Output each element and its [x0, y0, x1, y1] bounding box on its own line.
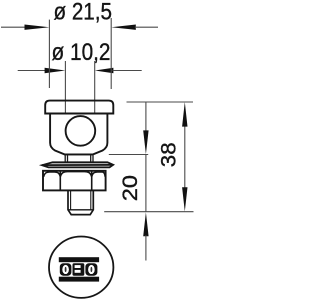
extension line left of ø 10,2 (x=65.4) — [64, 61, 66, 113]
component: hex nut chamfer arc left — [44, 172, 61, 177]
component: ball — [66, 116, 96, 146]
svg-text:38: 38 — [157, 142, 181, 167]
component: hex nut facet line right — [91, 171, 93, 190]
arrowhead ø 21,5 right — [111, 25, 136, 30]
svg-text:20: 20 — [118, 175, 142, 201]
right extension line middle (y=154.5) — [109, 154, 148, 156]
OBO logo letter B — [73, 263, 85, 276]
dimension line 20 middle segment — [145, 155, 147, 212]
component: bolt thread inner line left — [70, 191, 72, 210]
arrowhead ø 21,5 left — [25, 25, 50, 30]
component: ball housing — [50, 114, 107, 155]
OBO logo letter O1 — [60, 263, 72, 276]
svg-text:ø 21,5: ø 21,5 — [54, 0, 113, 26]
extension line right of ø 21,5 (x=111.2) — [110, 18, 112, 89]
OBO logo bottom bar — [59, 277, 99, 282]
dimension line ø 10,2 right tail — [112, 70, 141, 72]
dimension line 38 (x=184.8) — [184, 126, 186, 189]
component: bolt thread end line — [68, 209, 93, 211]
extension line right of ø 10,2 (x=94.7) — [94, 61, 96, 113]
right extension line bottom (y=211.7) — [104, 211, 193, 213]
extension line left of ø 21,5 (x=49.4) — [48, 20, 50, 88]
dimension line ø 10,2 left tail — [18, 70, 46, 72]
component: hex nut outline — [43, 171, 106, 191]
arrowhead ø 10,2 right — [95, 68, 114, 73]
dimension line 20 upper segment (x=145.9) — [145, 102, 147, 131]
arrowhead 20 top (outside, pointing down) — [143, 130, 148, 154]
component: top cap (front view) — [45, 101, 113, 114]
component: hex nut facet line left — [59, 171, 61, 190]
OBO logo top bar — [59, 257, 99, 262]
arrowhead 38 top — [182, 102, 187, 127]
arrowhead 20 bottom (outside, pointing up) — [143, 212, 148, 236]
bottom view circle — [49, 237, 113, 298]
dimension line ø 21,5 left tail — [1, 26, 26, 28]
svg-text:ø 10,2: ø 10,2 — [52, 39, 111, 66]
dimension line ø 21,5 right tail — [135, 26, 158, 28]
right extension line top (y=102) — [127, 101, 194, 103]
arrowhead ø 10,2 left — [45, 68, 66, 73]
component: collar lines under housing — [64, 155, 66, 162]
component: bolt thread inner line right — [90, 191, 92, 210]
component: washer — [42, 162, 113, 167]
arrowhead 38 bottom — [182, 187, 187, 211]
component: washer mid line — [42, 164, 113, 166]
OBO logo letter O2 — [85, 263, 97, 276]
component: bolt shank with chamfered end — [68, 191, 93, 215]
component: housing bottom edge — [64, 153, 94, 155]
component: hex nut chamfer arc middle — [60, 172, 91, 177]
component: hex nut chamfer arc right — [92, 172, 106, 177]
dimension line 20 lower tail — [145, 235, 147, 260]
